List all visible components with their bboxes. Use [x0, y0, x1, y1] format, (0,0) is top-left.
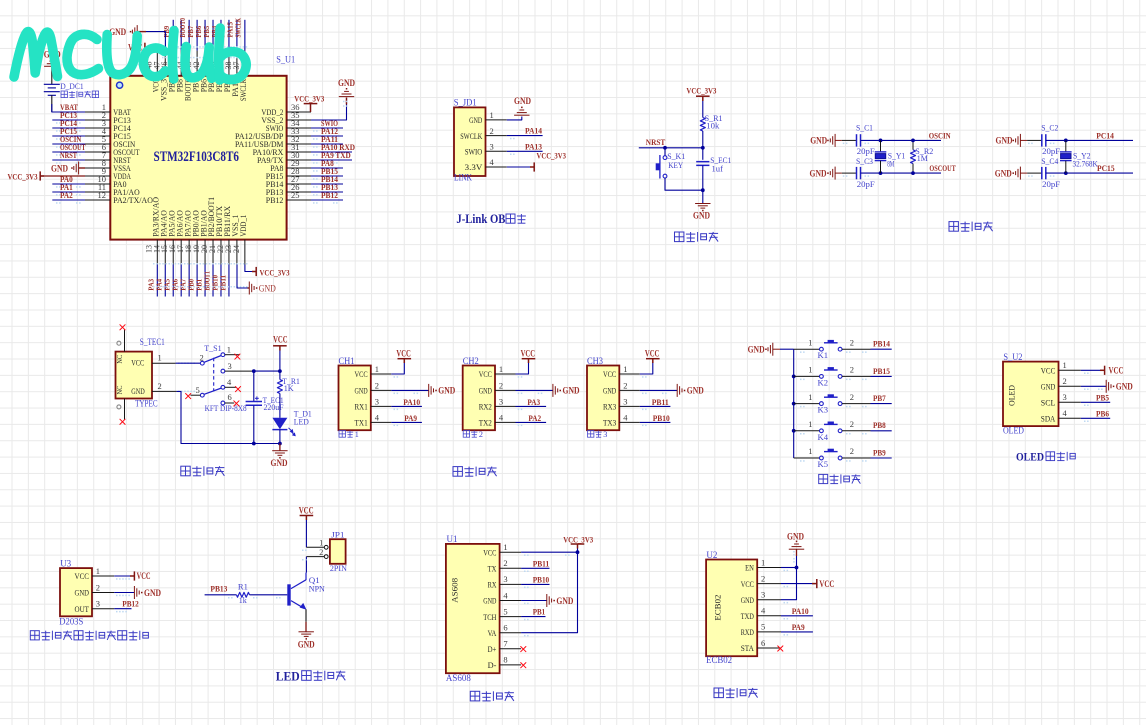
- U1 pin 7 D+: [488, 639, 521, 654]
- wire pin48 VCC to VCC bar: [146, 47, 157, 50]
- svg-text:37: 37: [232, 62, 241, 70]
- JP1 pin 2: [306, 548, 328, 558]
- MCU pin 10 PA0: [85, 174, 127, 189]
- MCU pin 23 VSS_1: [224, 215, 240, 265]
- svg-text:VCC: VCC: [299, 507, 314, 517]
- ground GND (CH2, sideways): [553, 384, 558, 397]
- svg-text:SWIO: SWIO: [465, 147, 483, 157]
- caption fingerprint module: [470, 691, 514, 701]
- dotted marks LED circuit: [228, 597, 233, 599]
- wire + net label PB6 (OLED pin4): [1081, 409, 1110, 419]
- MCU pin 20 PB2/BOOT1: [200, 197, 216, 265]
- caption crystal circuit: [949, 222, 993, 232]
- capacitor S_C3 20pF: [856, 156, 875, 189]
- svg-text:2PIN: 2PIN: [330, 563, 348, 573]
- wire + net label PB1 (pin 19): [194, 265, 205, 297]
- U2 pin 5 RXD: [741, 622, 781, 637]
- wire U3 pin2 to GND: [114, 592, 134, 594]
- svg-text:2: 2: [850, 446, 854, 456]
- svg-text:3: 3: [1063, 392, 1067, 402]
- CH2 pin 1 VCC: [479, 364, 516, 379]
- svg-text:RX3: RX3: [603, 402, 617, 412]
- ground GND (MCU pin 23, sideways): [248, 282, 277, 295]
- MCU pin 2 PC13: [85, 110, 131, 125]
- wire JD1 pin1 to GND: [507, 117, 522, 120]
- power VCC_3V3 (J-Link pin4): [530, 151, 566, 172]
- svg-text:VCC: VCC: [1041, 366, 1056, 376]
- MCU pin 43 PB7: [184, 51, 200, 93]
- svg-text:S_U1: S_U1: [276, 55, 295, 65]
- svg-text:GND: GND: [693, 210, 710, 220]
- U2 pin 6 STA: [741, 638, 781, 653]
- CH1 pin 3 RX1: [355, 396, 392, 411]
- push button K1: [820, 340, 842, 351]
- svg-text:VCC_3V3: VCC_3V3: [563, 534, 594, 544]
- svg-text:CH1: CH1: [339, 356, 355, 366]
- wire + net label PB9 (pin 46): [162, 20, 173, 51]
- svg-text:2: 2: [200, 353, 204, 363]
- svg-text:LED: LED: [294, 416, 309, 426]
- svg-text:PB7: PB7: [873, 393, 886, 403]
- svg-text:1: 1: [808, 419, 812, 429]
- capacitor S_C2 20pF: [1041, 123, 1060, 157]
- caption reset circuit: [675, 232, 719, 242]
- svg-text:EN: EN: [745, 563, 754, 573]
- svg-text:4: 4: [499, 412, 504, 422]
- svg-text:1: 1: [490, 110, 494, 120]
- wire + net label PB15 (pin 28): [311, 166, 343, 180]
- U1 pin 4 GND: [483, 590, 521, 605]
- S_TEC1 shell stub bottom with no-connect X: [120, 399, 125, 425]
- U1 pin 6 VA: [488, 623, 521, 638]
- MCU pin 17 PA7/AO: [176, 210, 192, 264]
- battery D_DC1 button cell: [44, 66, 60, 112]
- caption serial circuit: [453, 467, 497, 477]
- wire + net label PB8 (pin 45): [170, 20, 181, 51]
- svg-text:GND: GND: [514, 96, 531, 106]
- capacitor S_C1 20pF: [856, 123, 875, 157]
- svg-text:10k: 10k: [706, 120, 720, 130]
- U3 pin 2 GND: [75, 582, 115, 597]
- svg-text:GND: GND: [563, 386, 580, 396]
- module U3 body (D203S PIR): [60, 568, 92, 616]
- svg-text:AS608: AS608: [446, 673, 471, 683]
- net label PB13 + wire: [205, 583, 237, 594]
- svg-text:GND: GND: [355, 386, 368, 396]
- MCU pin 12 PA2/TX/AO: [85, 190, 153, 205]
- svg-text:GND: GND: [996, 136, 1013, 146]
- svg-text:GND: GND: [298, 640, 315, 650]
- svg-text:2: 2: [499, 380, 503, 390]
- svg-text:GND: GND: [741, 595, 754, 605]
- svg-text:1: 1: [319, 539, 323, 548]
- push button K2: [820, 367, 842, 378]
- MCU pin 11 PA1/AO: [85, 182, 140, 197]
- svg-text:VA: VA: [488, 628, 497, 638]
- svg-text:VCC_3V3: VCC_3V3: [686, 85, 717, 95]
- svg-text:GND: GND: [51, 163, 68, 173]
- wire T_R1 to LED: [279, 394, 281, 418]
- svg-text:J-Link OB: J-Link OB: [456, 212, 505, 226]
- svg-text:1: 1: [499, 364, 503, 374]
- svg-text:S_C1: S_C1: [856, 123, 873, 133]
- svg-text:1: 1: [761, 557, 765, 567]
- wire + net label PA11 (pin 32): [311, 134, 343, 148]
- svg-text:2: 2: [623, 380, 627, 390]
- dotted marks crystal S_Y1: [843, 143, 848, 145]
- svg-text:2: 2: [158, 381, 162, 391]
- S_TEC1 shell stub top with no-connect X: [120, 325, 125, 352]
- svg-text:U2: U2: [706, 550, 717, 560]
- capacitor S_EC1 1uf: [696, 148, 731, 190]
- U1 D- no-connect X: [521, 663, 526, 668]
- wire LED to bottom rail: [279, 430, 281, 444]
- wire + net label PA5 (pin 15): [163, 265, 174, 297]
- MCU pin 5 OSCIN: [85, 134, 136, 149]
- wire + net label PA12 (pin 33): [311, 126, 343, 140]
- connector JP1 body (2PIN): [330, 539, 346, 564]
- module U2 body (ECB02): [706, 560, 757, 657]
- wire + net label PB11 (pin 22): [218, 265, 229, 297]
- svg-text:VCC: VCC: [396, 349, 411, 359]
- wire GND to capacitor S_C1: [842, 139, 857, 141]
- wire bus to button K2: [794, 375, 820, 377]
- wire + net label PA6 (pin 16): [171, 265, 182, 297]
- crystal S_Y1 8M: [875, 140, 906, 173]
- svg-text:VDD_1: VDD_1: [238, 215, 248, 237]
- U1 pin 5 TCH: [483, 606, 521, 621]
- svg-text:4: 4: [503, 590, 508, 600]
- MCU pin 19 PB1/AO: [192, 210, 208, 264]
- wire U2 VCC to VCC bar: [781, 583, 815, 585]
- svg-text:GND: GND: [1041, 382, 1056, 392]
- MCU pin 34 SWIO: [266, 118, 311, 133]
- S_JD1 pin 2 SWCLK: [460, 126, 507, 141]
- svg-text:S_C4: S_C4: [1041, 156, 1059, 166]
- wire + net label PB11 (U1 TX): [521, 558, 549, 568]
- svg-text:RX: RX: [488, 580, 497, 590]
- svg-text:S_JD1: S_JD1: [454, 98, 477, 108]
- wire + net label PA3 (CH2 pin3): [516, 397, 547, 407]
- CH1 pin 4 TX1: [355, 412, 392, 427]
- svg-text:PB5: PB5: [1096, 393, 1110, 403]
- svg-text:OUT: OUT: [75, 604, 90, 614]
- svg-text:SWCLK: SWCLK: [234, 18, 243, 38]
- svg-text:NPN: NPN: [309, 583, 326, 593]
- MCU pin 15 PA5/AO: [160, 210, 176, 264]
- svg-text:PB10: PB10: [533, 574, 550, 584]
- wire T_S1 pin3 to VCC rail: [225, 370, 280, 372]
- wire bus to button K1: [794, 348, 820, 350]
- MCU pin 26 PB13: [266, 182, 311, 197]
- svg-text:PA2: PA2: [528, 413, 541, 423]
- wire pin35 VSS_2 to GND: [311, 98, 347, 121]
- wire + net label NRST (pin 7): [52, 150, 85, 164]
- MCU pin 22 PB11/RX: [216, 205, 232, 264]
- svg-text:3.3V: 3.3V: [465, 162, 483, 172]
- svg-text:PA2/TX/AO: PA2/TX/AO: [113, 195, 153, 205]
- S_TEC1 shell circle top: [117, 341, 121, 345]
- svg-text:TX3: TX3: [603, 418, 617, 428]
- CH3 pin 4 TX3: [603, 412, 640, 427]
- wire GND to capacitor S_C4: [1027, 172, 1042, 174]
- wire + net label PA10_RXD (pin 31): [311, 142, 355, 156]
- wire U1 pin1 VCC to VCC_3V3: [521, 551, 577, 553]
- MCU pin 18 PB0/AO: [184, 210, 200, 264]
- svg-text:PB10: PB10: [653, 413, 671, 423]
- junction at cap branch: [252, 369, 256, 373]
- junction at crystal top (S_Y2): [1064, 139, 1068, 143]
- wire + net label PA9 (CH1 pin4): [391, 413, 422, 423]
- MCU pin 38 PA15: [224, 51, 240, 97]
- svg-text:5: 5: [196, 385, 200, 395]
- svg-text:OLED: OLED: [1003, 425, 1024, 435]
- svg-text:5: 5: [761, 622, 765, 632]
- svg-text:3: 3: [761, 590, 765, 600]
- svg-text:GND: GND: [469, 115, 482, 125]
- U1 pin 8 D-: [488, 655, 521, 670]
- svg-text:PB11: PB11: [218, 275, 227, 291]
- LED T_D1: [272, 418, 295, 436]
- ground GND (U2, inverted top): [787, 531, 804, 549]
- wire + net label PB1 (U1 TCH): [521, 607, 545, 617]
- svg-text:GND: GND: [810, 136, 827, 146]
- dotted marks K2: [800, 379, 805, 381]
- svg-text:RX2: RX2: [479, 402, 492, 412]
- MCU pin 36 VDD_2: [261, 102, 311, 117]
- svg-text:VCC_3V3: VCC_3V3: [537, 151, 567, 161]
- svg-text:KEY: KEY: [668, 160, 684, 170]
- MCU pin 16 PA6/AO: [168, 210, 184, 264]
- wire button K1 to net: [842, 348, 892, 350]
- svg-text:3: 3: [96, 599, 100, 609]
- svg-text:1: 1: [375, 364, 379, 374]
- svg-text:S_C3: S_C3: [856, 156, 873, 166]
- svg-text:R1: R1: [238, 581, 248, 591]
- wire + net label PA13 (JD1 pin3): [507, 141, 543, 155]
- wire + net label PA14 (JD1 pin2): [507, 126, 543, 140]
- svg-text:1: 1: [227, 345, 231, 355]
- K4 pin numbers: [808, 419, 854, 429]
- power VCC_3V3 (MCU pin 36 VDD_2): [294, 94, 325, 113]
- wire U3 pin1 to VCC: [114, 575, 133, 577]
- ground GND (CH1, sideways): [429, 384, 434, 397]
- svg-text:2: 2: [850, 419, 854, 429]
- wire CH1 pin1 to VCC: [391, 363, 404, 375]
- svg-text:GND: GND: [995, 168, 1012, 178]
- S_JD1 pin 4 3.3V: [465, 157, 507, 172]
- svg-text:PB8: PB8: [873, 420, 886, 430]
- MCU pin 14 PA4/AO: [152, 210, 168, 264]
- junction node at key branch: [663, 146, 667, 150]
- wire to ground (reset): [702, 190, 704, 203]
- svg-text:8: 8: [503, 655, 507, 665]
- svg-text:2: 2: [850, 337, 854, 347]
- CH1 pin 1 VCC: [355, 364, 392, 379]
- svg-text:GND: GND: [787, 531, 804, 541]
- caption PIR sensor module: [30, 631, 148, 640]
- svg-text:U1: U1: [447, 534, 458, 544]
- wire S_C1 to OSCIN net: [861, 139, 942, 141]
- svg-text:TX2: TX2: [479, 418, 492, 428]
- wire NRST node down to key S_K1: [664, 148, 666, 156]
- wire rail to GND (power): [279, 444, 281, 451]
- svg-text:8M: 8M: [887, 159, 894, 169]
- wire + net label OSCOUT (pin 6): [52, 142, 85, 156]
- MCU pin 30 PA9/TX: [257, 150, 311, 165]
- svg-text:1: 1: [503, 542, 507, 552]
- dotted marks K4: [800, 433, 805, 435]
- dotted marks U3: [116, 578, 130, 580]
- svg-text:3: 3: [499, 396, 503, 406]
- wire GND to capacitor S_C2: [1027, 139, 1042, 141]
- push button K3: [820, 394, 842, 405]
- ground GND (battery): [44, 50, 61, 67]
- T_S1 pin6 stub with X: [225, 401, 239, 406]
- U1 pin 3 RX: [488, 574, 521, 589]
- wire + net label PC13 (pin 2): [52, 110, 85, 124]
- svg-text:SDA: SDA: [1041, 414, 1056, 424]
- ground GND (crystal S_Y2 top): [996, 134, 1028, 147]
- wire CH2 pin1 to VCC: [516, 363, 529, 375]
- ground GND (buttons, sideways): [748, 343, 780, 356]
- svg-text:CH3: CH3: [587, 356, 603, 366]
- svg-text:VCC: VCC: [273, 335, 288, 345]
- wire VCC_3V3 bar down to pin1 row: [577, 549, 579, 553]
- wire + net label PB12 (pin 25): [311, 190, 343, 204]
- svg-text:D203S: D203S: [59, 616, 83, 626]
- wire key bottom to GND rail: [665, 178, 703, 190]
- svg-text:VCC_3V3: VCC_3V3: [8, 171, 39, 181]
- CH2 pin 4 TX2: [479, 412, 516, 427]
- caption LED lighting circuit: [276, 669, 346, 683]
- svg-text:NRST: NRST: [646, 137, 666, 147]
- ground GND (MCU pin 8 VSSA): [51, 162, 85, 175]
- wire + net label PA9_TXD (pin 30): [311, 150, 352, 164]
- caption power circuit: [181, 466, 225, 476]
- wire + net label PA8 (pin 29): [311, 158, 343, 172]
- svg-text:4: 4: [490, 157, 495, 167]
- svg-text:TYPEC: TYPEC: [135, 399, 158, 409]
- svg-text:S_C2: S_C2: [1041, 123, 1058, 133]
- svg-text:GND: GND: [810, 168, 827, 178]
- junction at crystal top (S_Y1): [879, 139, 883, 143]
- wire + net label PB4 (pin 40): [210, 20, 221, 51]
- MCU pin-1 marker circle: [117, 82, 123, 88]
- wire + net label PB14 (pin 27): [311, 174, 343, 188]
- wire TEC1 pin1 to switch: [176, 362, 201, 364]
- svg-text:D-: D-: [488, 660, 497, 670]
- dotted marks OLED: [1084, 373, 1089, 375]
- svg-text:SWCLK: SWCLK: [460, 131, 482, 141]
- svg-text:25: 25: [291, 190, 300, 200]
- svg-text:PB15: PB15: [873, 366, 891, 376]
- svg-text:1: 1: [808, 446, 812, 456]
- svg-text:VCC: VCC: [131, 358, 144, 368]
- svg-text:VCC: VCC: [479, 369, 492, 379]
- K3 pin numbers: [808, 392, 854, 402]
- svg-text:K2: K2: [818, 377, 829, 387]
- ground GND (crystal S_Y1 bottom): [810, 167, 842, 180]
- wire + net label PA3 (pin 13): [147, 265, 158, 297]
- wire + net label PB7 (pin 43): [186, 20, 197, 51]
- svg-text:PB6: PB6: [1096, 409, 1110, 419]
- svg-text:GND: GND: [144, 588, 161, 598]
- svg-text:32.768K: 32.768K: [1073, 159, 1099, 169]
- U3 pin 1 VCC: [75, 566, 115, 581]
- svg-text:24: 24: [232, 245, 241, 253]
- svg-text:3: 3: [375, 396, 379, 406]
- svg-text:2: 2: [850, 392, 854, 402]
- MCUclub logo: [14, 28, 246, 80]
- svg-text:TX: TX: [488, 564, 497, 574]
- wire GND to button bus: [780, 348, 794, 350]
- wire OLED pin1 to VCC: [1081, 369, 1103, 371]
- svg-text:U3: U3: [60, 558, 71, 568]
- svg-text:STA: STA: [741, 643, 755, 653]
- wire button K5 to net: [842, 457, 892, 459]
- capacitor T_EC1 220uF branch: [246, 371, 262, 443]
- U1 D+ no-connect X: [521, 647, 526, 652]
- ground GND (LED circuit): [299, 632, 314, 637]
- power VCC_3V3 (MCU pin 9 VDDA): [8, 171, 86, 181]
- wire + net label PB11 (CH3 pin3): [640, 397, 671, 407]
- svg-text:1: 1: [808, 365, 812, 375]
- power VCC (CH2): [521, 349, 536, 363]
- power VCC (CH1): [396, 349, 411, 363]
- svg-text:CH2: CH2: [463, 356, 479, 366]
- svg-text:2: 2: [375, 380, 379, 390]
- wire + net label PA1 (pin 11): [52, 182, 85, 196]
- junction bus row K3: [792, 402, 796, 406]
- svg-text:GND: GND: [438, 386, 455, 396]
- MCU pin 3 PC14: [85, 118, 131, 133]
- svg-text:VCC_3V3: VCC_3V3: [260, 267, 291, 277]
- connector S_U2 body (OLED): [1003, 362, 1059, 427]
- wire VA loop (U1 pin6): [521, 552, 577, 633]
- svg-text:GND: GND: [483, 596, 496, 606]
- wire + net label PB5 (OLED pin3): [1081, 393, 1110, 403]
- svg-text:2: 2: [96, 582, 100, 592]
- svg-text:6: 6: [228, 392, 232, 402]
- wire JD1 pin4 to VCC_3V3: [507, 166, 533, 168]
- wire button K2 to net: [842, 375, 892, 377]
- push button K5: [820, 449, 842, 460]
- wire S_C2 to PC14 net: [1046, 139, 1133, 141]
- MCU pin 25 PB12: [266, 190, 311, 205]
- svg-text:VCC: VCC: [1109, 366, 1124, 376]
- push button K4: [820, 422, 842, 433]
- T_S1 pin numbers: [196, 345, 233, 403]
- power VCC_3V3 (reset circuit): [686, 85, 717, 101]
- junction at VCC rail: [278, 369, 282, 373]
- wire + net label PA2 (CH2 pin4): [516, 413, 547, 423]
- MCU pin 4 PC15: [85, 126, 131, 141]
- U2 pin 2 VCC: [741, 573, 781, 588]
- svg-text:2: 2: [490, 126, 494, 136]
- CH2 pin 3 RX2: [479, 396, 516, 411]
- ground GND (power circuit): [272, 451, 287, 456]
- resistor T_R1 1K: [277, 376, 299, 393]
- caption bluetooth module: [714, 688, 758, 698]
- dotted marks K1: [800, 351, 805, 353]
- dotted marks U1: [524, 554, 529, 556]
- svg-text:VCC: VCC: [75, 571, 90, 581]
- wire U2 EN to junction: [781, 567, 797, 569]
- wire VCC down to JP1 pin1: [305, 520, 307, 547]
- MCU pin 46 PB9: [160, 51, 176, 93]
- MCU pin 1 VBAT: [85, 102, 131, 117]
